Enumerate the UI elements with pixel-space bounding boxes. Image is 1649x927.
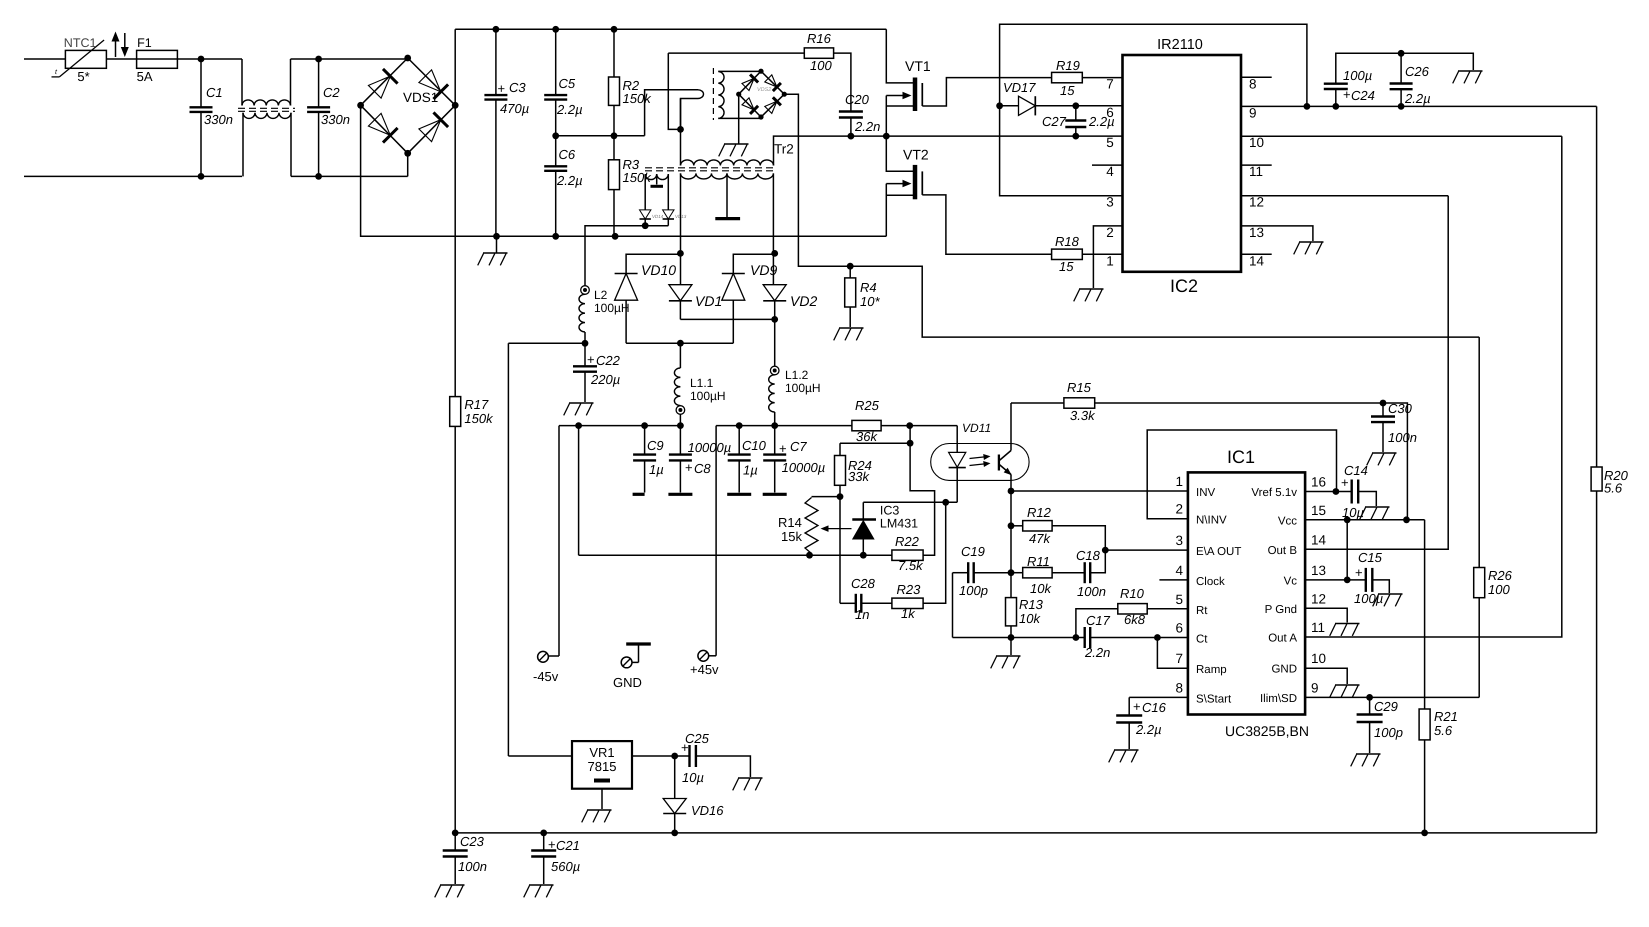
diode VD10 <box>626 254 680 273</box>
svg-text:C9: C9 <box>647 438 664 453</box>
capacitor C26 2.2u <box>1400 53 1402 83</box>
ground below VR1 <box>601 789 603 809</box>
IC2 pin 8 stub <box>1241 76 1272 78</box>
wire: Vcc pin 15 <box>1305 519 1425 521</box>
svg-text:100µH: 100µH <box>594 301 630 315</box>
svg-text:R22: R22 <box>895 534 920 549</box>
resistor R13 10k <box>1006 598 1017 626</box>
svg-text:1n: 1n <box>855 607 869 622</box>
R14 wiper arrow <box>826 528 852 530</box>
wire: AC neutral input bottom <box>24 175 242 177</box>
wire: HIN pin 10 <box>1241 135 1562 137</box>
wire: AC neutral to bridge bottom corner <box>407 153 409 176</box>
svg-text:Ct: Ct <box>1196 634 1208 646</box>
wire: N/INV to Vref loop <box>1147 430 1336 519</box>
wire: -45V to reference divider <box>578 426 580 556</box>
bridge rectifier VDS1 <box>361 58 408 105</box>
wire: Out A to IR2110 HIN <box>1305 136 1562 637</box>
svg-text:36k: 36k <box>856 429 878 444</box>
wire: Tr2 secondary left end down <box>680 173 682 284</box>
svg-text:6: 6 <box>1175 621 1183 636</box>
IC2 pin 4 stub <box>1092 164 1123 166</box>
svg-text:R11: R11 <box>1027 554 1050 569</box>
svg-text:100p: 100p <box>959 583 988 598</box>
resistor R12 47k <box>1011 525 1023 527</box>
svg-text:VD14: VD14 <box>652 214 664 219</box>
svg-text:L1.1: L1.1 <box>690 376 714 390</box>
wire: +45V rail <box>716 425 852 427</box>
capacitor C16 2.2u <box>1128 697 1130 715</box>
VDS2 diode bottom-right <box>765 101 777 113</box>
svg-text:L2: L2 <box>594 288 608 302</box>
transformer Tr2 secondary winding <box>681 173 774 179</box>
resistor R3 150k <box>613 136 615 160</box>
resistor R11 10k <box>1011 572 1023 574</box>
wire: VDS2 plus to R4 <box>784 94 1479 337</box>
arrow up (interchangeability mark) <box>115 36 117 57</box>
wire: -45V rail <box>559 425 680 427</box>
svg-text:R18: R18 <box>1055 234 1080 249</box>
svg-text:VD17: VD17 <box>1003 80 1036 95</box>
IC1 pin 4 Clock stub <box>1159 579 1188 581</box>
wire: choke to bridge bottom <box>291 175 408 177</box>
svg-text:5.6: 5.6 <box>1434 723 1453 738</box>
svg-text:Rt: Rt <box>1196 605 1208 617</box>
fuse F1 5A <box>137 50 178 68</box>
ground at C15 <box>1378 593 1403 595</box>
svg-text:VD11: VD11 <box>962 421 991 435</box>
wire: Tr2 secondary right end down <box>772 173 774 284</box>
capacitor C28 1n <box>840 602 856 604</box>
svg-text:10000µ: 10000µ <box>688 440 732 455</box>
wire: VR1 output <box>632 755 690 757</box>
svg-text:2: 2 <box>1106 225 1114 240</box>
capacitor C27 2.2u <box>1075 106 1077 121</box>
VD11 phototransistor <box>998 455 1000 471</box>
svg-text:C22: C22 <box>596 353 621 368</box>
capacitor C18 100n <box>1083 562 1085 583</box>
svg-text:5*: 5* <box>77 69 89 84</box>
svg-text:15: 15 <box>1060 83 1075 98</box>
diode VD13 <box>663 210 674 219</box>
terminal -45v <box>558 426 560 656</box>
svg-text:C6: C6 <box>559 147 576 162</box>
svg-text:1µ: 1µ <box>743 463 758 478</box>
ground at C23 <box>440 884 465 886</box>
svg-text:Tr2: Tr2 <box>774 142 794 157</box>
svg-text:Ramp: Ramp <box>1196 664 1227 676</box>
diode VD14 <box>640 210 651 219</box>
svg-text:1: 1 <box>1106 253 1114 268</box>
svg-text:12: 12 <box>1311 591 1326 606</box>
capacitor C17 2.2n <box>1083 627 1085 648</box>
wire: +15V supply rail <box>455 832 1596 834</box>
svg-text:VDS2: VDS2 <box>757 87 771 93</box>
svg-text:C19: C19 <box>961 544 985 559</box>
wire: Vc pin 13 <box>1305 579 1366 581</box>
capacitor C6 2.2u <box>555 136 557 167</box>
svg-text:NTC1: NTC1 <box>64 36 97 50</box>
svg-text:C29: C29 <box>1374 699 1398 714</box>
VDS2 diode top-right <box>765 75 777 87</box>
svg-text:100n: 100n <box>1388 430 1417 445</box>
terminal GND <box>621 657 632 668</box>
capacitor C5 2.2u <box>555 29 557 95</box>
VDS1 diode top-left <box>368 76 390 98</box>
svg-text:F1: F1 <box>137 36 152 50</box>
svg-text:VDS1: VDS1 <box>403 90 438 105</box>
svg-text:100n: 100n <box>458 859 487 874</box>
wire: bridge minus to primary ground rail <box>361 105 887 236</box>
svg-text:C30: C30 <box>1388 401 1413 416</box>
svg-text:Ilim\SD: Ilim\SD <box>1260 693 1297 705</box>
svg-text:+: + <box>779 441 787 456</box>
svg-text:15: 15 <box>1311 503 1326 518</box>
wire: Ilim/SD pin 9 <box>1305 696 1479 698</box>
capacitor C24 100u <box>1335 89 1337 106</box>
wire: LIN pin 12 <box>1241 195 1448 197</box>
svg-text:Vref 5.1v: Vref 5.1v <box>1251 487 1297 499</box>
svg-text:100µH: 100µH <box>690 389 726 403</box>
svg-text:UC3825B,BN: UC3825B,BN <box>1225 723 1309 739</box>
svg-text:100: 100 <box>1488 582 1510 597</box>
svg-text:10*: 10* <box>860 294 880 309</box>
svg-text:16: 16 <box>1311 475 1326 490</box>
svg-text:R4: R4 <box>860 280 877 295</box>
svg-text:6: 6 <box>1106 105 1114 120</box>
svg-text:2.2µ: 2.2µ <box>1135 722 1162 737</box>
capacitor C3 470u <box>495 29 497 95</box>
ground at IC2 pin 13 <box>1299 241 1324 243</box>
svg-text:1µ: 1µ <box>649 462 664 477</box>
svg-text:5.6: 5.6 <box>1604 481 1623 496</box>
resistor R24 33k <box>839 443 841 455</box>
wire: Ct/ground bus <box>953 637 1085 639</box>
svg-text:C5: C5 <box>559 76 576 91</box>
capacitor C19 100p <box>953 572 969 574</box>
svg-text:R21: R21 <box>1434 709 1458 724</box>
wire: +310V top rail <box>455 28 886 30</box>
resistor R23 1k <box>892 598 923 608</box>
shunt regulator IC3 LM431 <box>862 502 864 519</box>
IC2 pin 14 stub <box>1241 253 1272 255</box>
capacitor C14 10u <box>1350 480 1352 504</box>
VD11 light arrows <box>970 457 989 459</box>
svg-text:C3: C3 <box>509 80 526 95</box>
wire: aux rectifier output to L2 <box>644 219 646 226</box>
ground below C30 <box>1372 452 1397 454</box>
driver IC2 IR2110 <box>1123 55 1242 272</box>
svg-text:C27: C27 <box>1042 114 1067 129</box>
svg-text:10000µ: 10000µ <box>782 460 826 475</box>
resistor R16 100 <box>668 52 804 54</box>
wire: GND pin 10 <box>1305 668 1347 684</box>
ground at Tr2 <box>724 143 749 145</box>
capacitor C8 10000u <box>679 426 681 455</box>
svg-text:+: + <box>498 81 506 96</box>
svg-text:150k: 150k <box>623 91 653 106</box>
svg-text:33k: 33k <box>848 469 870 484</box>
svg-text:2.2n: 2.2n <box>854 119 880 134</box>
ground (primary) below rail <box>496 236 498 253</box>
diode VD2 <box>763 285 786 301</box>
wire: opto collector to R15 <box>1010 403 1012 451</box>
svg-text:Vc: Vc <box>1284 575 1298 587</box>
svg-text:P Gnd: P Gnd <box>1265 604 1297 616</box>
VDS1 diode top-right <box>419 70 441 92</box>
svg-text:VT1: VT1 <box>905 58 931 74</box>
resistor R22 7.5k <box>892 550 923 560</box>
svg-text:C23: C23 <box>460 834 485 849</box>
ground below R4 <box>839 327 864 329</box>
svg-text:N\INV: N\INV <box>1196 515 1227 527</box>
node: primary ground rail dots <box>493 233 500 240</box>
ground at C29 <box>1356 753 1381 755</box>
transformer Tr2 primary winding <box>681 160 774 166</box>
svg-text:220µ: 220µ <box>590 372 620 387</box>
svg-text:GND: GND <box>613 675 642 690</box>
svg-text:150k: 150k <box>464 411 494 426</box>
svg-text:R15: R15 <box>1067 380 1092 395</box>
svg-text:R23: R23 <box>897 582 922 597</box>
svg-text:VD1: VD1 <box>695 293 722 309</box>
svg-text:VD9: VD9 <box>750 262 777 278</box>
capacitor C23 100n <box>454 833 456 851</box>
svg-text:VT2: VT2 <box>903 147 929 163</box>
diode VD17 <box>1000 105 1019 107</box>
svg-text:S\Start: S\Start <box>1196 693 1232 705</box>
svg-text:470µ: 470µ <box>500 101 529 116</box>
wire: F1 to C1 to choke <box>177 58 242 60</box>
svg-text:Vcc: Vcc <box>1278 515 1297 527</box>
svg-text:C18: C18 <box>1076 548 1101 563</box>
svg-text:IC3: IC3 <box>880 504 900 518</box>
svg-text:7: 7 <box>1175 651 1183 666</box>
svg-text:7815: 7815 <box>588 759 617 774</box>
bridge rectifier VDS2 <box>739 71 761 94</box>
svg-text:C26: C26 <box>1405 64 1430 79</box>
wire: Vcc to Vc tie <box>1346 520 1348 580</box>
wire: VSS pin 13 to ground <box>1241 226 1313 241</box>
svg-text:14: 14 <box>1311 532 1327 547</box>
svg-text:R26: R26 <box>1488 568 1513 583</box>
svg-text:1: 1 <box>1175 474 1183 489</box>
svg-text:VR1: VR1 <box>589 745 614 760</box>
svg-text:8: 8 <box>1249 76 1257 91</box>
wire: AC line input top <box>24 58 65 60</box>
capacitor C20 2.2n <box>834 53 851 111</box>
svg-text:C14: C14 <box>1344 463 1368 478</box>
svg-text:R25: R25 <box>855 398 880 413</box>
svg-text:100: 100 <box>810 58 832 73</box>
wire: Ct to Ramp jog <box>1157 638 1188 669</box>
svg-text:5: 5 <box>1106 135 1114 150</box>
svg-text:R10: R10 <box>1120 586 1145 601</box>
wire: VD1/VD2 cathodes to L1.2 <box>680 318 774 320</box>
ground at C14 <box>1365 506 1390 508</box>
svg-text:IC1: IC1 <box>1227 447 1255 467</box>
svg-text:C7: C7 <box>790 439 807 454</box>
svg-text:2.2µ: 2.2µ <box>1404 91 1431 106</box>
svg-text:C20: C20 <box>845 92 870 107</box>
common-mode choke L (bottom winding) <box>242 113 244 177</box>
svg-text:IR2110: IR2110 <box>1157 37 1203 53</box>
svg-text:R17: R17 <box>464 397 489 412</box>
wire: Vref pin 16 <box>1305 491 1352 493</box>
svg-text:3.3k: 3.3k <box>1070 408 1096 423</box>
wire: P Gnd pin 12 <box>1305 608 1347 622</box>
capacitor C25 10u <box>688 745 690 767</box>
svg-text:+: + <box>548 837 556 852</box>
svg-text:14: 14 <box>1249 253 1265 268</box>
resistor R20 5.6 <box>1596 106 1598 467</box>
svg-text:C8: C8 <box>694 461 711 476</box>
svg-text:INV: INV <box>1196 487 1216 499</box>
capacitor C2 330n <box>318 59 320 107</box>
svg-text:150k: 150k <box>623 170 653 185</box>
wire: R24 top jog <box>840 442 910 444</box>
wire: L2 out to C22 and VR1 input <box>508 342 585 344</box>
VDS2 diode top-left <box>742 78 754 90</box>
svg-text:2.2n: 2.2n <box>1084 645 1110 660</box>
resistor R10 6k8 <box>1076 609 1118 638</box>
wire: COM pin 2 to ground <box>1093 226 1122 288</box>
svg-text:R19: R19 <box>1056 58 1080 73</box>
capacitor C1 330n <box>200 59 202 107</box>
svg-text:Out A: Out A <box>1268 633 1297 645</box>
svg-text:C15: C15 <box>1358 550 1383 565</box>
svg-text:Out B: Out B <box>1268 545 1298 557</box>
common-mode choke core <box>238 107 295 109</box>
svg-text:100µ: 100µ <box>1354 591 1383 606</box>
VDS1 diode bottom-left <box>368 113 390 135</box>
ground at C26 <box>1458 70 1483 72</box>
svg-text:11: 11 <box>1311 620 1325 635</box>
svg-text:560µ: 560µ <box>551 859 580 874</box>
wire: NTC1 to F1 <box>106 58 136 60</box>
svg-text:Clock: Clock <box>1196 576 1225 588</box>
wire: VCC loop pin3 <box>1000 24 1307 195</box>
svg-text:+45v: +45v <box>690 662 719 677</box>
terminal GND bar <box>626 642 651 645</box>
svg-text:+: + <box>1133 699 1141 714</box>
wire: opto emitter to INV <box>1010 475 1012 492</box>
optocoupler VD11 body <box>931 444 1029 481</box>
svg-text:VD10: VD10 <box>641 262 676 278</box>
capacitor C30 100n <box>1382 403 1384 417</box>
svg-text:10µ: 10µ <box>682 770 704 785</box>
resistor R21 5.6 <box>1424 520 1426 709</box>
VDS1 diode bottom-right <box>419 120 441 142</box>
svg-text:LM431: LM431 <box>880 517 918 531</box>
wire: midpoint up to Tr1 primary <box>645 90 698 136</box>
wire: feedback divider chain <box>1010 491 1012 598</box>
svg-text:4: 4 <box>1106 164 1114 179</box>
transformer Tr2 core <box>645 167 775 169</box>
svg-text:3: 3 <box>1175 533 1183 548</box>
svg-text:1k: 1k <box>901 606 916 621</box>
ground at P Gnd <box>1335 623 1360 625</box>
svg-text:C24: C24 <box>1351 88 1375 103</box>
wire: choke to C2 to bridge top <box>291 58 408 60</box>
wire: VDS2 minus down to ground <box>738 94 740 144</box>
svg-text:2: 2 <box>1175 502 1183 517</box>
svg-text:8: 8 <box>1175 680 1183 695</box>
svg-text:47k: 47k <box>1029 531 1051 546</box>
svg-text:12: 12 <box>1249 195 1264 210</box>
ground at C25 <box>738 777 763 779</box>
op-amp controller IC1 UC3825B <box>1188 472 1305 714</box>
inductor L2 100uH <box>581 286 590 295</box>
svg-text:VD16: VD16 <box>691 803 724 818</box>
transistor VT2 <box>886 136 913 171</box>
svg-text:3: 3 <box>1106 195 1114 210</box>
wire: C26 top to ground <box>1401 53 1473 70</box>
wire: INV input (pin 1) <box>1011 490 1188 492</box>
svg-text:100n: 100n <box>1077 584 1106 599</box>
arrow down (interchangeability mark) <box>124 33 126 50</box>
resistor R4 10* <box>849 266 851 278</box>
capacitor C22 220u <box>584 343 586 366</box>
wire: Out B to IR2110 LIN <box>1305 196 1448 550</box>
svg-text:2.2µ: 2.2µ <box>556 102 583 117</box>
svg-text:L1.2: L1.2 <box>785 368 809 382</box>
inductor L1.2 100uH <box>774 319 776 366</box>
transistor VT1 <box>886 29 913 83</box>
svg-text:VD2: VD2 <box>790 293 817 309</box>
resistor R17 150k <box>450 397 461 427</box>
resistor R26 100 <box>1478 598 1480 698</box>
VDS2 diode bottom-left <box>742 98 754 110</box>
wire: reference bottom rail <box>579 554 892 556</box>
diode VD16 <box>674 756 676 799</box>
svg-text:C21: C21 <box>556 838 580 853</box>
VD11 LED <box>956 426 958 453</box>
svg-text:R12: R12 <box>1027 505 1052 520</box>
svg-text:15: 15 <box>1059 259 1074 274</box>
capacitor C7 10000u <box>774 426 776 455</box>
ground at IC2 pin 2 <box>1079 288 1104 290</box>
resistor R18 15 <box>1052 249 1083 259</box>
svg-text:R16: R16 <box>807 31 832 46</box>
trimmer R14 15k <box>812 496 841 498</box>
svg-text:11: 11 <box>1249 164 1263 179</box>
thermistor NTC1 <box>65 50 106 68</box>
svg-text:C10: C10 <box>742 438 767 453</box>
wire: LM431 cathode node <box>863 501 957 503</box>
svg-text:5A: 5A <box>137 69 153 84</box>
capacitor C9 1u <box>644 426 646 455</box>
wire: Tr2 primary right to switch node <box>774 136 1123 165</box>
svg-text:100p: 100p <box>1374 725 1403 740</box>
wire: S/Start pin 8 <box>1129 696 1188 698</box>
svg-text:E\A OUT: E\A OUT <box>1196 546 1241 558</box>
resistor R2 150k <box>613 29 615 77</box>
svg-text:GND: GND <box>1271 664 1297 676</box>
wire: capacitor midpoint <box>556 135 645 137</box>
wire: R17 down to +15V rail <box>454 426 456 833</box>
svg-text:10k: 10k <box>1019 611 1041 626</box>
svg-text:330n: 330n <box>321 112 350 127</box>
capacitor C21 560u <box>543 833 545 851</box>
svg-text:C1: C1 <box>206 85 223 100</box>
ground below C22 <box>569 402 594 404</box>
svg-text:100µH: 100µH <box>785 381 821 395</box>
ground at C16 <box>1114 749 1139 751</box>
resistor R15 3.3k <box>1011 402 1064 404</box>
capacitor C10 1u <box>738 426 740 455</box>
svg-text:+: + <box>1343 87 1351 102</box>
